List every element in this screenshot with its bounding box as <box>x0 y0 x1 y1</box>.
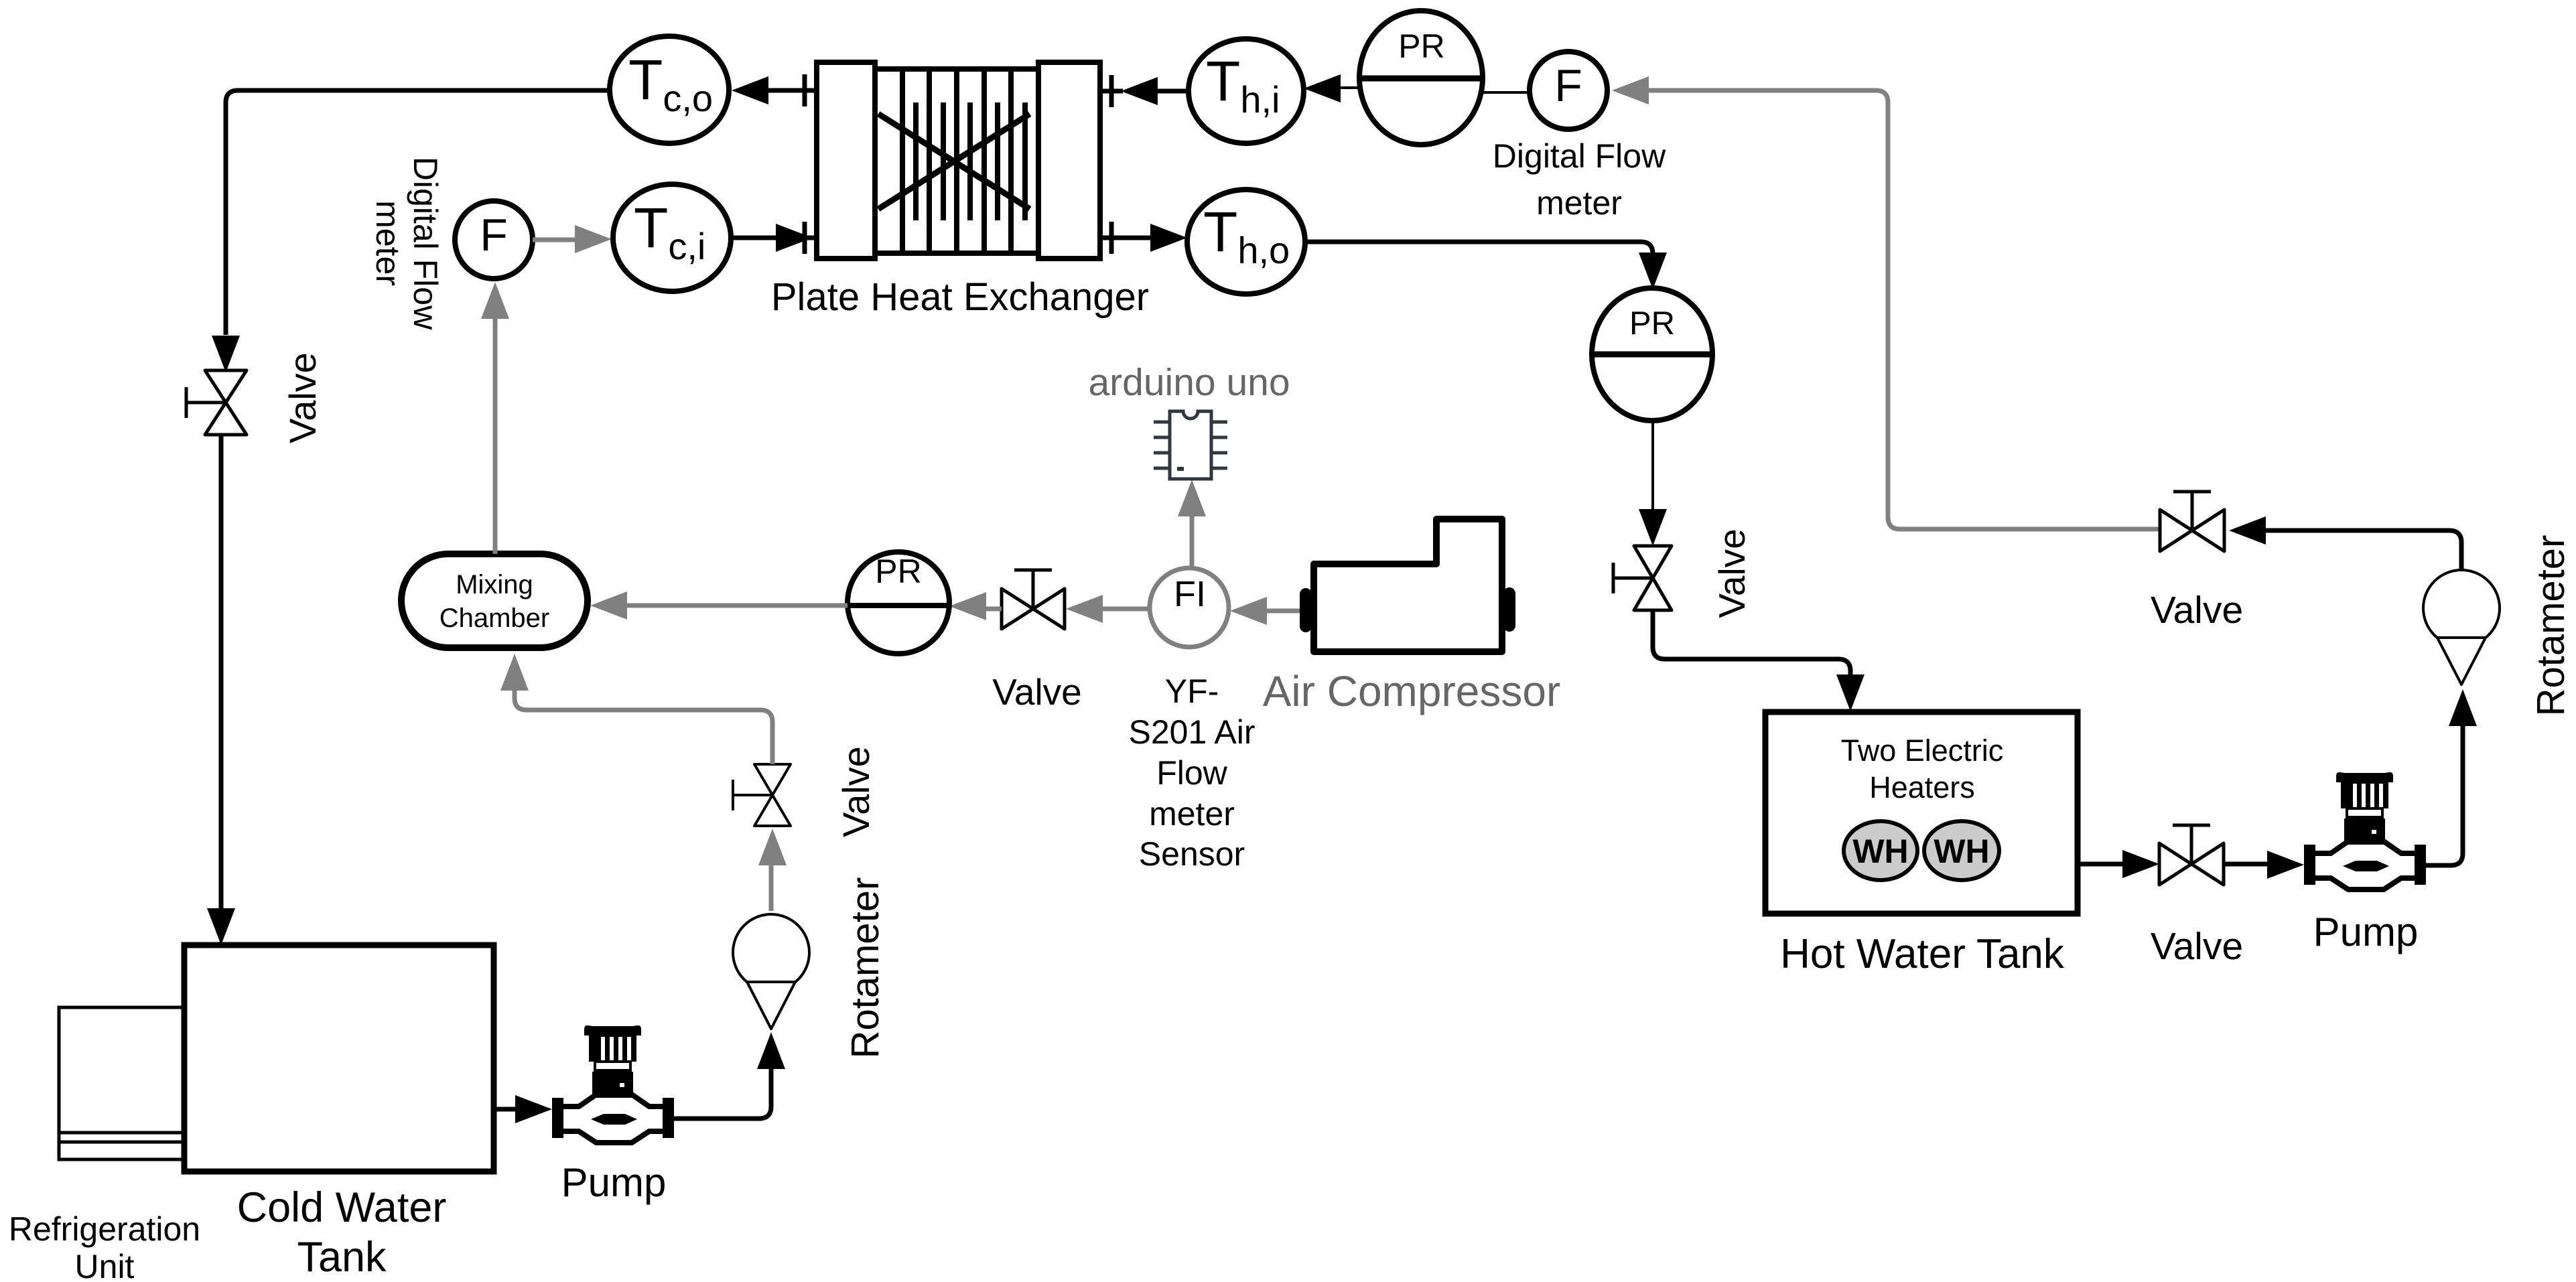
wire cold tank to pump <box>494 1107 516 1112</box>
gray arrow FI to arduino <box>1190 516 1195 568</box>
svg-text:Valve: Valve <box>1711 528 1753 618</box>
svg-text:meter: meter <box>369 200 407 286</box>
wire Tc,i to heat exchanger <box>731 236 777 240</box>
water heater WH (left) <box>1844 821 1917 880</box>
svg-text:WH: WH <box>1934 833 1989 870</box>
air compressor <box>1314 519 1502 652</box>
wire HX to Th,o with arrow <box>1123 236 1150 240</box>
temperature sensor Th,o <box>1187 190 1305 294</box>
svg-text:Valve: Valve <box>2151 589 2243 632</box>
svg-text:F: F <box>1554 60 1582 111</box>
gray arrow valve to PR (left) <box>986 607 1002 612</box>
svg-text:PR: PR <box>1629 305 1675 342</box>
temperature sensor Tc,i <box>613 184 731 291</box>
pump (hot side) <box>2304 772 2426 889</box>
wire valve to cold water tank <box>219 435 224 908</box>
svg-text:Valve: Valve <box>281 352 324 443</box>
svg-text:Cold Water: Cold Water <box>237 1184 447 1231</box>
rotameter (right) <box>2423 570 2500 646</box>
wire F to PR <box>1482 91 1530 94</box>
pressure gauge PR (top) <box>1359 11 1483 145</box>
temperature sensor Tc,o <box>610 36 729 143</box>
svg-text:PR: PR <box>1398 27 1444 65</box>
svg-text:Digital Flow: Digital Flow <box>407 157 444 330</box>
refrigeration unit box <box>59 1007 184 1159</box>
wire from Tc,o left and down to cold-inlet valve <box>226 90 610 335</box>
svg-text:Refrigeration: Refrigeration <box>9 1210 200 1248</box>
svg-text:Hot Water Tank: Hot Water Tank <box>1780 931 2065 977</box>
mixing chamber <box>401 554 588 648</box>
svg-text:FI: FI <box>1174 574 1206 614</box>
digital flow meter F (top right) <box>1530 52 1607 129</box>
gray arrow compressor to FI <box>1267 609 1300 614</box>
svg-text:Valve: Valve <box>835 746 877 837</box>
svg-text:Unit: Unit <box>75 1248 135 1282</box>
hot water tank <box>1765 712 2078 914</box>
wire rotameter to recirculation valve <box>2266 530 2461 570</box>
air flow sensor FI <box>1150 568 1229 647</box>
wire PR to Th,i with arrow <box>1341 86 1360 89</box>
valve air line <box>1002 570 1065 629</box>
plate heat exchanger <box>817 62 1100 259</box>
valve mixing chamber inlet <box>733 764 791 826</box>
pump (cold side) <box>552 1025 674 1143</box>
wire PR down to hot valve <box>1651 419 1654 509</box>
wire Th,i to HX with arrow <box>1158 89 1189 94</box>
svg-text:YF-: YF- <box>1165 672 1219 710</box>
valve recirculation (top right) <box>2160 492 2224 551</box>
svg-text:arduino uno: arduino uno <box>1088 361 1290 404</box>
svg-text:Plate Heat Exchanger: Plate Heat Exchanger <box>771 275 1149 319</box>
valve hot tank inlet <box>1613 546 1672 610</box>
svg-text:meter: meter <box>1149 795 1235 833</box>
gray wire from hot valve up-and-left into F <box>1649 90 2160 529</box>
valve cold tank inlet <box>186 370 247 435</box>
svg-text:F: F <box>480 210 508 261</box>
cold water tank <box>184 945 494 1171</box>
label Digital Flow meter (left, rotated) <box>369 157 444 330</box>
wire valve down-right-down into hot water tank <box>1653 610 1850 675</box>
svg-text:Sensor: Sensor <box>1139 835 1245 873</box>
svg-text:Flow: Flow <box>1156 754 1227 792</box>
svg-text:Chamber: Chamber <box>439 603 550 633</box>
wire Th,o right and down into PR (right) <box>1305 242 1653 254</box>
gray arrow F to Tc,i <box>533 238 576 242</box>
heat exchanger ports <box>794 74 1123 254</box>
valve hot tank outlet <box>2159 825 2224 885</box>
pressure gauge PR (left) <box>848 552 949 654</box>
wire valve to pump (hot side) <box>2224 862 2267 867</box>
rotameter (left) <box>733 914 809 991</box>
gray arrow FI to air valve <box>1101 607 1150 612</box>
pressure gauge PR (right) <box>1592 288 1712 421</box>
svg-text:Rotameter: Rotameter <box>2529 535 2573 717</box>
arduino uno chip <box>1154 411 1227 479</box>
svg-text:Mixing: Mixing <box>456 570 533 599</box>
wire pump to right rotameter <box>2426 725 2463 865</box>
svg-text:Tank: Tank <box>297 1234 387 1281</box>
svg-text:Air Compressor: Air Compressor <box>1263 667 1561 715</box>
wire pump to left rotameter <box>674 1066 771 1119</box>
gray arrow PR to mixing chamber <box>627 603 848 608</box>
svg-text:meter: meter <box>1536 184 1622 222</box>
svg-text:WH: WH <box>1852 833 1908 870</box>
svg-text:PR: PR <box>875 553 921 590</box>
svg-text:Two Electric: Two Electric <box>1841 733 2004 768</box>
svg-text:Valve: Valve <box>2151 925 2243 968</box>
svg-text:Valve: Valve <box>992 671 1082 713</box>
svg-text:Heaters: Heaters <box>1869 770 1975 804</box>
digital flow meter F (left) <box>455 201 533 279</box>
svg-text:S201 Air: S201 Air <box>1128 713 1255 751</box>
wire HX to Tc,o with arrow <box>768 88 797 93</box>
gray wire valve to mixing chamber bottom <box>515 690 772 764</box>
svg-text:Rotameter: Rotameter <box>843 877 887 1059</box>
wire hot tank to outlet valve <box>2078 862 2122 867</box>
water heater WH (right) <box>1924 821 1999 880</box>
gray wire mixing chamber to digital flow meter F <box>493 315 498 554</box>
svg-text:Pump: Pump <box>561 1160 667 1205</box>
gray wire rotameter to mixing valve <box>769 864 774 911</box>
temperature sensor Th,i <box>1189 39 1304 143</box>
svg-text:Pump: Pump <box>2313 910 2419 954</box>
svg-text:Digital Flow: Digital Flow <box>1493 137 1666 175</box>
